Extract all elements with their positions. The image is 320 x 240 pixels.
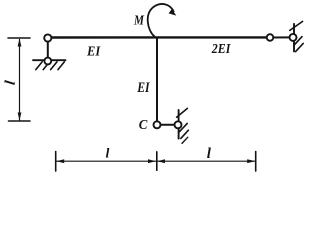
svg-text:C: C	[139, 118, 148, 133]
support C: wall line	[178, 110, 180, 139]
right support B: link rod	[270, 36, 293, 38]
moment M arc (clockwise arrow at joint)	[148, 4, 174, 37]
support A: lower hinge circle	[44, 58, 51, 65]
right support B: beam-end hinge circle	[267, 34, 274, 41]
support C: wall hinge circle	[175, 121, 182, 128]
svg-text:M: M	[133, 14, 144, 29]
support A: ground hatching	[36, 62, 42, 70]
left dimension bottom arrowhead	[18, 113, 22, 121]
support C: column-end hinge circle	[154, 121, 161, 128]
left dimension line (height l)	[19, 40, 21, 121]
svg-text:l: l	[207, 146, 212, 162]
left dimension bottom tick	[9, 120, 31, 122]
column member (vertical, joint to C)	[156, 38, 158, 122]
right support B: wall hatching	[290, 21, 303, 30]
bottom dimension line	[56, 160, 255, 162]
bottom dimension right tick	[255, 152, 257, 172]
svg-text:EI: EI	[86, 45, 101, 60]
svg-text:l: l	[106, 147, 110, 162]
bottom dimension arrowhead left-in (right span)	[157, 159, 165, 163]
bottom dimension arrowhead right-out	[247, 159, 255, 163]
moment M arrowhead	[169, 9, 177, 16]
right support B: wall line	[293, 24, 295, 52]
support C: link rod	[157, 124, 178, 126]
svg-text:l: l	[3, 79, 19, 86]
svg-text:2EI: 2EI	[211, 42, 231, 57]
support A: ground line	[33, 59, 66, 61]
support A: upper hinge circle	[44, 34, 51, 41]
support A: link rod between hinges	[47, 41, 49, 58]
left dimension top tick	[8, 37, 30, 39]
bottom dimension middle tick	[156, 152, 158, 171]
support C: wall hatching	[177, 108, 188, 117]
beam member A-B (horizontal)	[48, 36, 267, 38]
bottom dimension left tick	[55, 152, 57, 172]
bottom dimension arrowhead left-out	[56, 159, 64, 163]
bottom dimension arrowhead right-in (left span)	[148, 159, 156, 163]
left dimension top arrowhead	[18, 39, 22, 47]
right support B: wall hinge circle	[290, 34, 297, 41]
svg-text:EI: EI	[136, 80, 150, 96]
